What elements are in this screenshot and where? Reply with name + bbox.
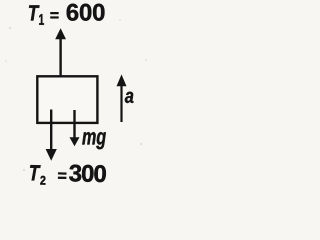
label T1 = 600 <box>29 4 104 25</box>
label T2 = 300 <box>30 164 106 186</box>
label a <box>125 92 134 103</box>
arrow mg (down, from box bottom) <box>70 110 80 146</box>
arrow a (up, right of box) <box>117 74 127 122</box>
arrow T1 (up, from box top) <box>55 28 66 76</box>
label mg <box>82 132 106 149</box>
arrow T2 (down, from box bottom) <box>46 110 57 161</box>
box (mass) <box>37 76 97 123</box>
